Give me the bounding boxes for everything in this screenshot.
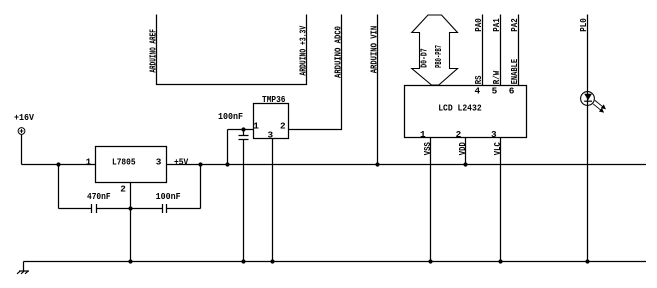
svg-text:1: 1 xyxy=(420,129,426,140)
svg-text:100nF: 100nF xyxy=(218,111,243,122)
wire TMP36 pin1 horizontal xyxy=(228,129,254,131)
LCD module body xyxy=(405,86,527,138)
wire LCD VLC pin3 to ground xyxy=(500,138,502,262)
svg-text:PL0: PL0 xyxy=(578,18,589,32)
capacitor C2 100nF plates xyxy=(162,204,164,213)
svg-text:3: 3 xyxy=(156,156,162,167)
LED D1 circle xyxy=(581,92,595,106)
svg-text:ENABLE: ENABLE xyxy=(509,59,520,85)
svg-text:+5V: +5V xyxy=(174,156,189,167)
wire ground rail xyxy=(24,261,647,263)
svg-text:D0-D7: D0-D7 xyxy=(418,48,429,68)
node +5V at TMP36 supply xyxy=(225,162,229,166)
wire LCD VSS pin1 to ground xyxy=(430,138,432,262)
svg-text:100nF: 100nF xyxy=(156,191,181,202)
svg-text:2: 2 xyxy=(120,183,126,194)
svg-text:LCD L2432: LCD L2432 xyxy=(438,102,482,113)
wire regulator pin2 to ground rail xyxy=(130,183,132,262)
node capacitor rail junction xyxy=(128,206,132,210)
LED D1 emission arrow 2 xyxy=(593,104,603,112)
svg-text:VSS: VSS xyxy=(422,142,433,155)
connector stub ARDUINO ADC0 wire xyxy=(289,15,342,130)
wire LCD VDD pin2 to +5V rail xyxy=(465,138,467,166)
svg-text:3: 3 xyxy=(268,130,274,141)
svg-text:PA0: PA0 xyxy=(473,18,484,32)
svg-text:R/W: R/W xyxy=(491,71,502,85)
node ground at LED xyxy=(585,259,589,263)
svg-text:ARDUINO ADC0: ARDUINO ADC0 xyxy=(332,26,343,78)
svg-text:PA1: PA1 xyxy=(491,18,502,32)
svg-text:2: 2 xyxy=(456,129,462,140)
connector stub ARDUINO VIN wire xyxy=(377,15,379,166)
wire +5V rail xyxy=(167,164,647,166)
node +5V at LCD VDD xyxy=(463,162,467,166)
svg-text:470nF: 470nF xyxy=(87,191,111,202)
svg-text:4: 4 xyxy=(475,85,481,96)
connector stub PA0 wire xyxy=(482,15,484,86)
svg-text:6: 6 xyxy=(509,85,515,96)
svg-text:3: 3 xyxy=(491,129,497,140)
svg-text:PB0-PB7: PB0-PB7 xyxy=(433,45,444,68)
node input junction xyxy=(56,162,60,166)
wire TMP36 pin1 down to +5V rail xyxy=(227,130,229,166)
LED D1 cathode bar xyxy=(584,100,592,102)
svg-text:1: 1 xyxy=(253,120,259,131)
capacitor C3 100nF bottom lead to ground xyxy=(243,140,245,262)
svg-text:5: 5 xyxy=(492,85,498,96)
svg-text:RS: RS xyxy=(473,75,484,84)
connector stub PL0 / LED wire xyxy=(587,15,589,262)
node ground at LCD VSS xyxy=(428,259,432,263)
connector stub ARDUINO AREF wire xyxy=(157,15,307,85)
wire capacitor rail right segment xyxy=(167,208,201,210)
sensor U2 body TMP36 xyxy=(254,104,289,139)
svg-text:ARDUINO AREF: ARDUINO AREF xyxy=(147,29,158,73)
wire +16V terminal drop xyxy=(21,135,23,165)
regulator U1 body L7805 xyxy=(96,147,167,183)
svg-text:VLC: VLC xyxy=(492,142,503,155)
wire capacitor rail mid segment xyxy=(97,208,163,210)
ground symbol stem xyxy=(23,262,25,272)
node ground at TMP36 pin3 xyxy=(270,259,274,263)
wire capacitor rail up to +5V rail xyxy=(200,165,202,209)
capacitor C3 100nF top lead xyxy=(243,130,245,136)
node ground at regulator pin2 xyxy=(128,259,132,263)
svg-text:ARDUINO VIN: ARDUINO VIN xyxy=(368,26,379,74)
svg-text:TMP36: TMP36 xyxy=(262,94,286,105)
svg-text:2: 2 xyxy=(280,120,286,131)
bus arrow D0-D7 / PB0-PB7 xyxy=(412,15,458,85)
node +5V at ARDUINO VIN xyxy=(375,162,379,166)
wire input node down to capacitor rail xyxy=(58,165,60,209)
wire TMP36 pin3 to ground rail xyxy=(272,139,274,262)
wire +16V to regulator input xyxy=(22,164,96,166)
LED D1 emission arrow 1 xyxy=(595,100,605,108)
svg-text:ARDUINO +3.3V: ARDUINO +3.3V xyxy=(298,26,309,76)
svg-text:+16V: +16V xyxy=(14,112,34,123)
svg-text:L7805: L7805 xyxy=(112,156,136,167)
LED D1 triangle xyxy=(584,94,592,101)
capacitor C1 470nF plates xyxy=(91,204,93,213)
svg-text:1: 1 xyxy=(86,156,92,167)
node +5V at C2 xyxy=(198,162,202,166)
node ground at C3 xyxy=(241,259,245,263)
svg-text:VDD: VDD xyxy=(457,142,468,155)
wire capacitor rail left segment xyxy=(59,208,92,210)
node TMP36 pin1 / C3 xyxy=(241,127,245,131)
ground symbol earth hatching xyxy=(17,271,29,274)
connector stub PA1 wire xyxy=(500,15,502,86)
capacitor C3 100nF plates xyxy=(239,135,249,137)
connector stub PA2 wire xyxy=(518,15,520,86)
power terminal +16V circle xyxy=(18,128,25,135)
svg-text:PA2: PA2 xyxy=(509,18,520,32)
node ground at LCD VLC xyxy=(498,259,502,263)
